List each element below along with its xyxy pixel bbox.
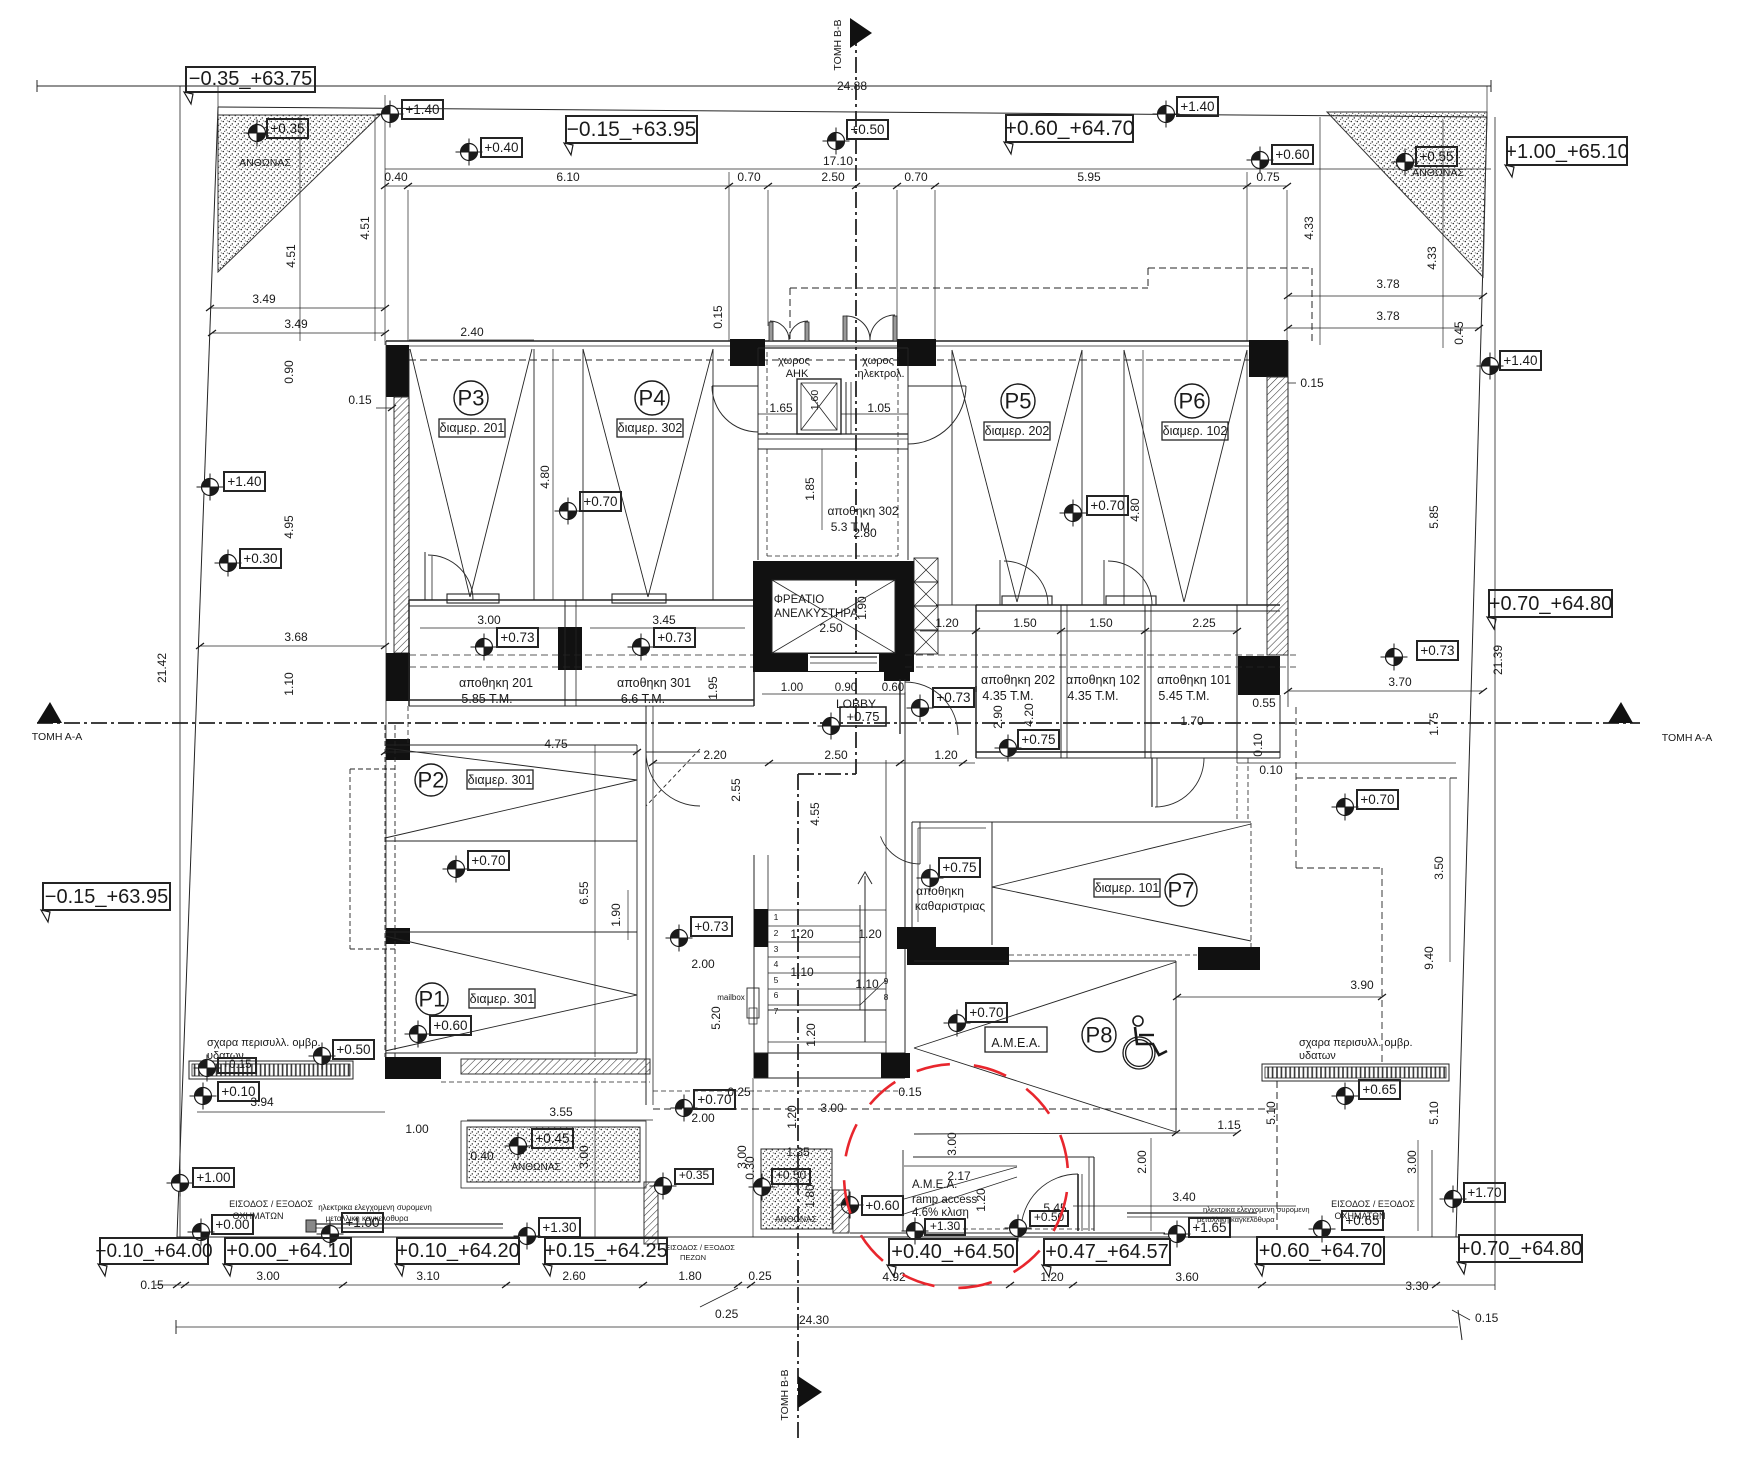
property boundary top [218,107,1487,117]
svg-text:1.20: 1.20 [934,748,958,762]
east wall hatched [1267,341,1288,707]
column top-center-right [897,339,936,366]
svg-text:2.40: 2.40 [460,325,484,339]
gate east [1127,1213,1257,1217]
svg-text:P5: P5 [1005,388,1032,413]
stair west wall [754,855,768,1078]
svg-text:+0.70_+64.80: +0.70_+64.80 [1459,1238,1582,1260]
dim line 4.33b [1442,120,1444,348]
svg-text:9.40: 9.40 [1422,946,1436,970]
grate east [1262,1064,1449,1081]
dim line 3.49a [206,305,389,311]
level marker +0.70 P8 [944,1003,1008,1037]
svg-text:+0.35: +0.35 [679,1168,710,1182]
door arc P5 [1000,560,1048,605]
dim line 3.00v2 [752,1078,754,1237]
svg-text:0.15: 0.15 [1300,376,1324,390]
dim 3.55 planter [549,1105,573,1119]
parking label circle P7 [1165,874,1197,906]
level marker +1.40 topright [1153,97,1219,128]
svg-text:3.94: 3.94 [250,1095,274,1109]
svg-text:ΑΝΕΛΚΥΣΤΗΡΑ: ΑΝΕΛΚΥΣΤΗΡΑ [774,608,858,620]
svg-text:0.10: 0.10 [1259,763,1283,777]
svg-text:1.00: 1.00 [781,682,803,694]
svg-text:1.20: 1.20 [790,927,814,941]
stair flight right treads [860,910,889,1002]
svg-text:+0.30: +0.30 [243,551,277,566]
dim 0.25 ramp [727,1085,751,1099]
svg-text:0.40: 0.40 [384,170,408,184]
dim 5.45 ramp [1043,1201,1067,1215]
svg-text:1.05: 1.05 [867,401,891,415]
dim line 1.85 [821,449,823,530]
svg-text:ΑΝΘΩΝΑΣ: ΑΝΘΩΝΑΣ [511,1162,560,1173]
machine room dashed [767,352,898,449]
level marker +0.73 aisle [666,917,733,952]
wall nub right of shaft [884,655,910,681]
svg-text:1.90: 1.90 [609,903,623,927]
svg-text:4.35 Τ.Μ.: 4.35 Τ.Μ. [982,689,1033,703]
svg-text:3.68: 3.68 [284,630,308,644]
section arrow B-B bottom [779,1369,822,1420]
stair bottom wall [754,1053,905,1078]
svg-text:+1.30: +1.30 [542,1220,576,1235]
north wall inner dashed line [409,359,1267,361]
svg-text:ΤΟΜΗ Β-Β: ΤΟΜΗ Β-Β [832,19,844,70]
svg-text:ΠΕΖΩΝ: ΠΕΖΩΝ [680,1253,706,1262]
dim line 4.75 [381,749,641,755]
svg-text:1.20: 1.20 [1040,1270,1064,1284]
level marker +0.73 storage201 [471,628,539,661]
stair column west-bottom [754,1053,768,1078]
svg-text:6.55: 6.55 [577,881,591,905]
parking stall P8 outline [914,961,1176,1134]
dim 21.42 left [155,653,169,683]
property boundary bottom street line [177,1236,1458,1238]
svg-text:+0.73: +0.73 [500,630,534,645]
level marker +1.00 gate [317,1213,384,1248]
svg-text:ΑΝΘΩΝΑΣ: ΑΝΘΩΝΑΣ [239,157,291,169]
svg-text:χωρος: χωρος [778,355,810,367]
hatched wall right of planter [833,1190,849,1233]
level marker +0.65 grate east [1332,1080,1401,1110]
parking stall P6 vee [1124,350,1247,602]
level marker +0.60 ramp [837,1192,904,1219]
dim 5.85 right [1427,505,1441,529]
svg-text:3.00: 3.00 [477,613,501,627]
gate west [306,1220,503,1232]
room label χωρος ηλεκτρολ. [857,355,904,380]
dim 4.33 right a [1302,216,1316,240]
svg-text:1.00: 1.00 [405,1122,429,1136]
gate east text [1331,1199,1415,1221]
dim 0.15 ramp [898,1085,922,1099]
svg-text:3.00: 3.00 [1405,1150,1419,1174]
svg-text:+0.73: +0.73 [657,630,691,645]
svg-text:1.15: 1.15 [1217,1118,1241,1132]
dim line 3.50 [1449,778,1451,962]
dim 1.80 bottom [678,1269,702,1283]
svg-text:5.85 Τ.Μ.: 5.85 Τ.Μ. [461,692,512,706]
dim 5.95 top [1077,170,1101,184]
apartment box P5 διαμερ. 202 [984,422,1050,440]
svg-text:ΑΗΚ: ΑΗΚ [786,368,809,380]
svg-text:+0.00_+64.10: +0.00_+64.10 [226,1240,349,1262]
svg-text:24.88: 24.88 [837,79,867,93]
dim 3.60 bottom [1175,1270,1199,1284]
svg-text:3.00: 3.00 [820,1101,844,1115]
svg-text:διαμερ. 102: διαμερ. 102 [1163,424,1228,438]
svg-text:5: 5 [774,975,779,985]
svg-text:1.50: 1.50 [1089,616,1113,630]
svg-text:χωρος: χωρος [862,355,894,367]
dim 1.20 stair left [790,927,814,941]
svg-text:2.90: 2.90 [991,705,1005,729]
svg-text:3.55: 3.55 [549,1105,573,1119]
svg-text:0.15: 0.15 [898,1085,922,1099]
svg-text:3.45: 3.45 [652,613,676,627]
svg-text:4.75: 4.75 [544,737,568,751]
svg-text:P8: P8 [1086,1022,1113,1047]
section arrow A-A left [32,702,83,743]
svg-text:4.33: 4.33 [1302,216,1316,240]
bottom dimension ticks [173,1282,1440,1288]
svg-text:2.60: 2.60 [562,1269,586,1283]
svg-text:8: 8 [884,992,889,1002]
level box +0.60_+64.70 bottom [1255,1237,1384,1276]
svg-text:+0.50: +0.50 [336,1042,370,1057]
level marker +0.30 left [215,549,282,577]
dim 2.50 top [821,170,845,184]
svg-text:+0.55: +0.55 [1419,149,1453,164]
svg-text:P7: P7 [1168,877,1195,902]
dimension 24.88 [837,79,867,93]
svg-text:3.60: 3.60 [1175,1270,1199,1284]
svg-text:3.00: 3.00 [735,1145,749,1169]
column top-left [386,345,409,397]
dim 0.70 top-left [737,170,761,184]
dim 3.00 left v2 [735,1145,749,1169]
dim 3.78 b [1376,309,1400,323]
machine room walls [758,348,908,449]
parking stall P4 outline [583,349,713,600]
svg-text:2.00: 2.00 [691,957,715,971]
dim 1.90 aisle [609,903,623,927]
top secondary line [385,168,1491,170]
level marker +0.45 planter [505,1129,574,1160]
dim 0.40 top [384,170,408,184]
ramp slope lines [904,1167,1017,1214]
dim 1.00 planter [405,1122,429,1136]
dim line 3.00v1 [594,1078,596,1237]
svg-text:1.10: 1.10 [855,977,879,991]
svg-text:P6: P6 [1179,388,1206,413]
svg-text:1.10: 1.10 [282,672,296,696]
column south-west [385,1057,441,1079]
svg-text:+0.60_+64.70: +0.60_+64.70 [1259,1240,1382,1262]
dim 4.95 left [282,515,296,539]
dim 2.25 storage101 [1192,616,1216,630]
parking stall P2 vee [385,748,637,838]
storeroom 302 walls [758,434,908,560]
svg-text:P4: P4 [639,385,666,410]
level marker +1.40 right [1477,351,1542,380]
dim 2.00 P8 [1135,1150,1149,1174]
grate west text [207,1037,321,1062]
section arrow B-B top [832,18,872,71]
dim line 4.80 between P3 P4 [552,349,554,600]
dim 0.15 bottom-left [140,1278,164,1292]
level marker +1.30 ramp [902,1218,966,1245]
svg-text:0.25: 0.25 [715,1307,739,1321]
dim 1.80 planter [803,1184,817,1208]
dim 2.55 lobby v [729,778,743,802]
svg-text:−0.15_+63.95: −0.15_+63.95 [45,886,168,908]
svg-text:5.20: 5.20 [709,1006,723,1030]
dim 3.49 b [284,317,308,331]
dim 0.90 left [282,360,296,384]
level marker +0.70 P3P4 [555,492,622,525]
svg-text:3.00: 3.00 [256,1269,280,1283]
svg-text:3.90: 3.90 [1350,978,1374,992]
level marker +0.70 P5P6 [1060,496,1129,527]
parking stall P2 outline [385,745,637,841]
stair landing [768,980,886,1042]
property boundary left [177,107,218,1237]
svg-text:αποθηκη 301: αποθηκη 301 [617,676,691,690]
dim 0.75 top [1256,170,1280,184]
svg-text:0.15: 0.15 [140,1278,164,1292]
door arc machine room right [908,386,966,444]
svg-text:διαμερ. 301: διαμερ. 301 [468,773,533,787]
crossed insulation boxes [914,558,938,654]
dim 4.51 b [358,216,372,240]
level box +0.10_+64.20 [395,1238,520,1276]
dim 0.55 right [1252,696,1276,710]
grate east text [1299,1037,1413,1062]
svg-text:0.45: 0.45 [1452,321,1466,345]
level marker +0.50 ramp [1005,1210,1069,1242]
dim 0.15 arrow r [1288,382,1296,384]
svg-text:4.80: 4.80 [1128,498,1142,522]
svg-text:+1.00_+65.10: +1.00_+65.10 [1505,141,1628,163]
level marker +0.70 court [443,851,510,883]
svg-text:0.15: 0.15 [348,393,372,407]
level box -0.10_+64.00 [95,1238,212,1276]
svg-text:+0.73: +0.73 [1420,643,1454,658]
svg-text:0.90: 0.90 [282,360,296,384]
right survey line [1494,117,1496,1290]
dim 1.20 storages [935,616,959,630]
level marker +1.40 topleft [377,100,444,128]
wheelchair symbol [1123,1016,1167,1069]
storage room 301 text [617,676,691,706]
svg-text:2.50: 2.50 [819,621,843,635]
level marker +0.40 top [456,138,523,166]
svg-text:+0.60: +0.60 [1275,147,1309,162]
dim line 3.00 storage201 [420,627,558,629]
svg-text:1.95: 1.95 [706,676,720,700]
ramp door arc [1021,1174,1082,1231]
dim 2.50 lobby [824,748,848,762]
level marker +1.65 gate east [1164,1218,1231,1248]
storage partition 202-102 [1061,605,1067,758]
stair stringer [858,872,872,1042]
storage room 202 text [981,673,1055,703]
south hatched wall [461,1059,650,1074]
entrance door arcs top [769,315,897,341]
parking label circle P2 [415,764,447,796]
apartment box P6 διαμερ. 102 [1162,422,1228,440]
dim 3.49 a [252,292,276,306]
level marker +0.75 storage202 [995,730,1060,762]
dim 1.50 storage202 [1013,616,1037,630]
dim 3.00 ramp h [820,1101,844,1115]
svg-text:2.20: 2.20 [703,748,727,762]
level box +0.47_+64.57 [1042,1239,1170,1277]
svg-text:ηλεκτρολ.: ηλεκτρολ. [857,368,904,380]
svg-text:+1.00: +1.00 [196,1170,230,1185]
svg-text:αποθηκη 302: αποθηκη 302 [827,504,898,518]
parking stall P6 outline [1124,350,1247,605]
cleaner room text [915,884,985,913]
parking stall P3 vee [410,349,532,597]
dim line 4.33a [1319,117,1321,345]
dim 1.15 P8 [1217,1118,1241,1132]
svg-text:2.00: 2.00 [1135,1150,1149,1174]
svg-text:5.10: 5.10 [1427,1101,1441,1125]
dim 3.70 right [1388,675,1412,689]
svg-text:mailbox: mailbox [717,993,745,1002]
level marker +0.00 entry [188,1215,254,1246]
level marker +0.10 west [190,1082,260,1110]
svg-text:0.70: 0.70 [737,170,761,184]
svg-text:+0.75: +0.75 [847,709,880,724]
svg-text:+0.40: +0.40 [484,140,518,155]
parking stall P5 vee [952,350,1082,602]
svg-text:2.50: 2.50 [821,170,845,184]
storage partition 102-101 [1145,605,1151,758]
svg-text:4.95: 4.95 [282,515,296,539]
line right entry [1418,1140,1432,1237]
dim 3.50 right [1432,856,1446,880]
svg-text:διαμερ. 201: διαμερ. 201 [440,421,505,435]
svg-text:2.55: 2.55 [729,778,743,802]
storage block left walls [409,600,754,706]
dim 1.20 stair right [858,927,882,941]
dim 4.75 court [544,737,568,751]
svg-text:+0.15: +0.15 [222,1059,251,1071]
dim 3.40 bottom right [1172,1190,1196,1204]
parking label circle P3 [454,381,488,415]
dim 1.10 stair2 [855,977,879,991]
dim line 3.78a [1284,293,1487,299]
planter center hatched [761,1149,832,1229]
ramp enclosure [850,1150,1165,1233]
storeroom 302 text [827,504,898,534]
svg-text:5.95: 5.95 [1077,170,1101,184]
svg-text:+1.65: +1.65 [1192,1220,1226,1235]
svg-text:+0.65: +0.65 [1362,1082,1396,1097]
apartment box P7 διαμερ. 101 [1094,879,1160,897]
svg-text:4.51: 4.51 [358,216,372,240]
lobby door arc right [900,679,958,735]
storage room 102 text [1066,673,1140,703]
dim 4.51 a [284,244,298,268]
svg-text:+0.47_+64.57: +0.47_+64.57 [1045,1241,1168,1263]
svg-text:5.85: 5.85 [1427,505,1441,529]
level marker +1.30 gate [514,1218,581,1250]
pedestrian entry text [665,1243,735,1262]
dim 4.92 bottom [882,1270,906,1284]
leader 0.15 bottom-right [1452,1310,1499,1325]
parking label circle P5 [1001,384,1035,418]
dim 3.00 planterleft [0,0,1,1]
dim 3.45 storage301 [652,613,676,627]
svg-text:αποθηκη 201: αποθηκη 201 [459,676,533,690]
svg-text:+1.30: +1.30 [930,1219,961,1233]
dim line 3.70 [1284,688,1487,694]
storage right east wall [1237,605,1280,758]
dim line lobby [649,760,975,766]
property boundary right [1456,117,1487,1237]
dim 5.10 east2 [1427,1101,1441,1125]
storage room 101 text [1157,673,1231,703]
gate east label [1197,1205,1310,1224]
column west at P2 [386,739,410,760]
svg-text:1.60: 1.60 [809,390,821,411]
parking stall P3 outline [409,349,534,600]
svg-text:+0.40_+64.50: +0.40_+64.50 [891,1241,1014,1263]
svg-text:+0.70: +0.70 [583,494,617,509]
dim 0.25 bottom [748,1269,772,1283]
apartment box P1 διαμερ. 301 [469,989,535,1008]
svg-text:−0.35_+63.75: −0.35_+63.75 [189,68,312,90]
svg-text:+0.70: +0.70 [471,853,505,868]
svg-text:+0.73: +0.73 [936,690,970,705]
svg-text:4.35 Τ.Μ.: 4.35 Τ.Μ. [1067,689,1118,703]
svg-text:+1.00: +1.00 [345,1215,379,1230]
svg-text:+0.65: +0.65 [1345,1213,1379,1228]
svg-text:αποθηκη 202: αποθηκη 202 [981,673,1055,687]
level marker +0.50 planter2 [749,1168,811,1201]
dim 6.10 top [556,170,580,184]
dim 17.10 top [823,154,853,168]
svg-text:3.40: 3.40 [1172,1190,1196,1204]
svg-text:P1: P1 [419,986,446,1011]
svg-text:2: 2 [774,928,779,938]
dim line storages right [920,628,1241,634]
svg-text:5.10: 5.10 [1264,1101,1278,1125]
box Α.Μ.Ε.Α. [985,1027,1047,1052]
dim 2.20 lobby [703,748,727,762]
svg-text:+1.40: +1.40 [1180,99,1214,114]
canopy dashed over ramp [653,1081,1277,1230]
svg-text:καθαριστριας: καθαριστριας [915,899,985,913]
svg-text:4.80: 4.80 [538,465,552,489]
level box +0.00_+64.10 [223,1238,351,1276]
svg-text:2.80: 2.80 [853,526,877,540]
svg-text:1.75: 1.75 [1427,712,1441,736]
svg-text:σχαρα περισυλλ. ομβρ.: σχαρα περισυλλ. ομβρ. [207,1037,321,1049]
dim 5.20 aisle [709,1006,723,1030]
level box -0.15_+63.95 top [564,116,697,155]
black bar under cleaner room [907,947,1009,965]
dim 0.15 left [348,393,372,407]
level box +0.70_+64.80 bottom [1457,1235,1582,1274]
dim 1.10 left [282,672,296,696]
dashed lines west court [385,706,408,1057]
